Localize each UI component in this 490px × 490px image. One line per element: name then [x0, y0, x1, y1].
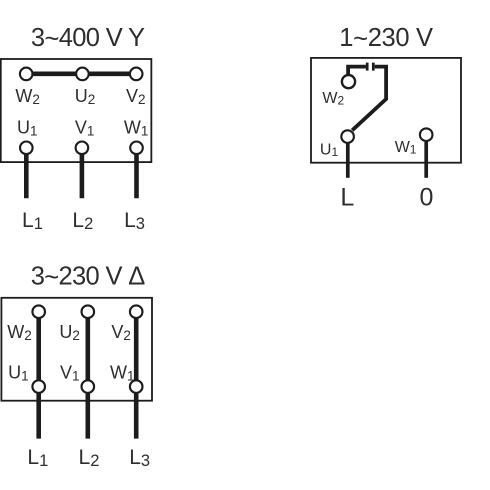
svg-text:W1: W1: [110, 362, 135, 383]
svg-text:L2: L2: [72, 209, 93, 233]
terminal W1 (star box): [130, 142, 143, 155]
terminal W1 (single phase box): [420, 128, 433, 141]
terminal V1 (delta box): [82, 380, 95, 393]
terminal U2 (star box): [76, 68, 89, 81]
terminal U1 (single phase box): [341, 130, 354, 143]
terminal V2 (star box): [130, 68, 143, 81]
svg-text:3~230 V Δ: 3~230 V Δ: [31, 263, 146, 292]
svg-text:W1: W1: [124, 118, 149, 139]
svg-text:U1: U1: [8, 362, 29, 383]
svg-text:V2: V2: [126, 86, 146, 107]
svg-text:L: L: [340, 184, 354, 212]
terminal U2 (delta box): [82, 305, 95, 318]
svg-text:U2: U2: [75, 86, 96, 107]
svg-text:V1: V1: [75, 118, 95, 139]
wire: W2 to capacitor left plate: [348, 67, 366, 75]
terminal box (3~400 V Y): [1, 59, 152, 162]
svg-text:W2: W2: [15, 86, 40, 107]
svg-text:V1: V1: [60, 362, 80, 383]
wire L1 lead: [24, 150, 29, 198]
wire: U2-V1 bridge and L2 lead: [86, 314, 91, 439]
svg-text:W2: W2: [322, 90, 344, 108]
wire 0 lead (below W1): [424, 142, 428, 178]
svg-text:V2: V2: [111, 322, 131, 343]
wire L3 lead: [134, 150, 139, 198]
svg-text:1~230 V: 1~230 V: [339, 24, 433, 53]
wire L2 lead: [80, 150, 85, 198]
svg-text:U1: U1: [320, 141, 339, 159]
capacitor left plate: [366, 63, 369, 71]
terminal box (1~230 V): [311, 58, 461, 163]
wire: capacitor right plate to U1: [352, 67, 386, 131]
svg-text:W2: W2: [7, 322, 32, 343]
terminal U1 (delta box): [32, 380, 45, 393]
terminal W2 (single phase box): [342, 75, 355, 88]
terminal box (3~230 V Δ): [1, 298, 152, 401]
svg-text:0: 0: [420, 184, 434, 212]
svg-text:U1: U1: [17, 118, 38, 139]
svg-text:L1: L1: [22, 209, 43, 233]
svg-text:L3: L3: [124, 209, 145, 233]
terminal V1 (star box): [76, 142, 89, 155]
capacitor right plate: [372, 63, 375, 71]
svg-text:L3: L3: [129, 446, 150, 470]
wire: star bridge W2-U2-V2: [26, 72, 136, 77]
svg-text:3~400 V Y: 3~400 V Y: [31, 24, 145, 53]
svg-text:L2: L2: [79, 446, 100, 470]
svg-text:U2: U2: [59, 322, 80, 343]
terminal W2 (star box): [20, 68, 33, 81]
wire: V2-W1 bridge and L3 lead: [134, 314, 139, 439]
svg-text:W1: W1: [395, 139, 417, 157]
terminal U1 (star box): [20, 142, 33, 155]
terminal W2 (delta box): [32, 305, 45, 318]
terminal W1 (delta box): [130, 380, 143, 393]
terminal V2 (delta box): [130, 305, 143, 318]
svg-text:L1: L1: [27, 446, 48, 470]
wire: W2-U1 bridge and L1 lead: [36, 314, 41, 439]
wire L lead (below U1): [346, 143, 350, 178]
